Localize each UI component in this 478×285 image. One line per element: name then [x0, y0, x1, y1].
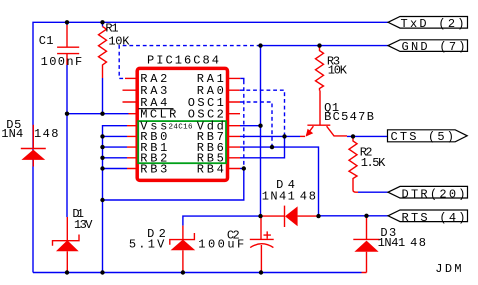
diode D4	[261, 206, 319, 227]
connector tag DTR(20)	[388, 186, 468, 198]
junction R2 top on CTS net	[351, 134, 355, 138]
wire: DTR net	[358, 191, 388, 193]
IC U1 PIC16C84 box	[137, 68, 227, 180]
svg-text:R1: R1	[105, 21, 118, 35]
junction RB0 on ground chain	[100, 134, 104, 138]
transistor Q1	[306, 91, 347, 137]
left unconnected stubs RA3 RA4	[123, 90, 136, 102]
svg-text:RB3: RB3	[140, 162, 167, 176]
junction C2 on ground rail	[259, 270, 263, 274]
svg-text:24C16: 24C16	[169, 123, 193, 131]
wire: GND net solid	[261, 45, 389, 47]
svg-text:JDM: JDM	[435, 262, 461, 276]
svg-text:RB4: RB4	[197, 162, 224, 176]
capacitor C2	[250, 216, 274, 272]
svg-text:RTS (4): RTS (4)	[402, 211, 466, 225]
junction C2/D4 on RTS net	[258, 214, 262, 218]
junction port-ground vertical on GND line	[258, 43, 262, 47]
wire: C1/D1 column x=67	[66, 22, 68, 217]
zener D1	[53, 217, 80, 273]
junction C1 top on TxD rail	[65, 20, 69, 24]
junction RA0/RB5 on CTS net	[282, 134, 286, 138]
wire: bottom ground rail	[33, 272, 362, 274]
junction RB2 on ground chain	[100, 156, 104, 160]
junction Vdd on port-ground vertical	[258, 124, 262, 128]
junction ground chain on ground rail	[100, 270, 104, 274]
connector tag RTS (4)	[388, 210, 468, 222]
resistor R2	[349, 136, 358, 192]
wire: GND dashed branch to RA2	[119, 46, 260, 79]
MCLR overline	[139, 108, 174, 110]
svg-text:1N41: 1N41	[378, 236, 406, 250]
svg-text:48: 48	[410, 236, 426, 250]
wire: MCLR net	[67, 113, 129, 115]
junction RB3 on ground chain	[100, 166, 104, 170]
wire: RB5 up to CTS net	[240, 136, 285, 157]
svg-text:1.5K: 1.5K	[361, 156, 386, 170]
resistor R3	[316, 46, 324, 91]
resistor R1	[99, 22, 107, 113]
wire: port-ground vertical x=260.5	[260, 46, 262, 217]
24C16 overlay green box	[138, 121, 226, 163]
svg-text:1N41: 1N41	[262, 189, 295, 203]
wire: RB6 net down to RTS line	[240, 147, 319, 216]
svg-text:148: 148	[34, 127, 59, 141]
wire: RA1 elbow	[240, 78, 244, 80]
wire: RA1 dashed vertical	[243, 81, 245, 169]
right pin stubs	[229, 78, 241, 168]
wire: collector to CTS tag	[347, 135, 388, 137]
svg-text:5.1V: 5.1V	[129, 237, 165, 251]
svg-text:GND (7): GND (7)	[402, 40, 466, 54]
connector tag TxD (2)	[388, 17, 468, 29]
junction D2 on ground rail	[181, 270, 185, 274]
junction R1 top on TxD rail	[100, 20, 104, 24]
wire: RA0 dashed	[240, 90, 285, 136]
wire: OSC1 dashed	[240, 102, 272, 147]
junction RA1 dashed on RB4 net	[242, 166, 246, 170]
connector tag CTS (5)	[388, 130, 468, 142]
diode D5	[21, 125, 46, 167]
svg-text:48: 48	[300, 189, 316, 203]
svg-text:1N4: 1N4	[1, 127, 23, 141]
svg-text:13V: 13V	[74, 218, 93, 232]
junction OSC1 on RB6 net	[270, 145, 274, 149]
junction RB4 return on ground chain	[100, 198, 104, 202]
wire: RB7 / CTS net	[240, 135, 300, 137]
svg-text:CTS (5): CTS (5)	[391, 130, 455, 144]
junction RB1 on ground chain	[100, 145, 104, 149]
diode D3	[353, 216, 379, 273]
wire: Vss/RB0-RB3 ground chain x=102.5	[103, 126, 128, 273]
wire: TxD top rail	[33, 22, 388, 272]
wire: RB4 return line to ground chain	[103, 169, 244, 201]
svg-text:10K: 10K	[328, 64, 348, 78]
svg-text:TxD (2): TxD (2)	[401, 17, 465, 31]
junction D3 on RTS net	[364, 214, 368, 218]
svg-text:100uF: 100uF	[198, 237, 244, 251]
zener D2	[170, 226, 195, 273]
junction D1 on ground rail	[65, 270, 69, 274]
connector tag GND (7)	[388, 40, 468, 52]
junction RB6 net/D4 on RTS net	[316, 214, 320, 218]
junction R3 top on GND line	[317, 43, 321, 47]
wire: RTS net	[319, 215, 389, 217]
junction R1 bottom on MCLR net	[100, 112, 104, 116]
svg-text:C1: C1	[39, 34, 54, 48]
wire: Vdd to port ground	[240, 125, 261, 127]
svg-text:100nF: 100nF	[41, 55, 83, 69]
wire: RB4 stub to dashed	[240, 168, 244, 170]
capacitor C1	[57, 25, 79, 65]
junction C1/D1 on MCLR net	[65, 112, 69, 116]
svg-text:DTR(20): DTR(20)	[402, 188, 466, 202]
